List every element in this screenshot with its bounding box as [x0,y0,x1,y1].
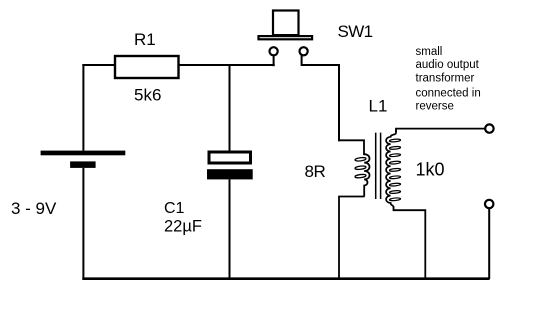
wire: secondary bottom lead down to bottom rail [394,207,426,280]
battery positive plate [41,151,126,156]
resistor R1 [115,56,179,78]
wire: battery positive lead [82,65,84,151]
svg-text:1k0: 1k0 [416,160,445,180]
wire: switch right terminal down, right, and to transformer primary [302,55,339,141]
inductor L1 secondary winding 1k0 (bumps) [386,130,396,211]
wire: bottom terminal to bottom rail [488,208,490,279]
wire: capacitor top branch [229,65,231,152]
wire: secondary top lead to output terminal [396,129,484,132]
capacitor C1 (bottom plate, solid) [207,169,253,179]
wire: top rail from battery to R1 [82,64,115,66]
inductor L1 primary winding 8R (turn rings) [355,157,366,161]
svg-text:8R: 8R [305,162,326,181]
svg-text:connected inreverse: connected inreverse [416,87,481,112]
wire: battery negative lead [82,168,84,279]
pushbutton SW1 left terminal [270,47,278,55]
svg-text:SW1: SW1 [338,22,373,41]
output terminal top [485,124,493,132]
battery negative plate [70,161,96,168]
wire: primary bottom lead to bottom rail [339,197,365,280]
svg-text:3 - 9V: 3 - 9V [11,199,57,218]
transformer core line 2 [380,133,382,199]
inductor L1 secondary winding 1k0 (turn rings) [389,139,400,142]
transformer core line 1 [375,133,377,199]
wire: capacitor to bottom rail [229,179,231,279]
svg-text:smallaudio outputtransformer: smallaudio outputtransformer [416,46,480,84]
inductor L1 primary winding 8R (bumps) [364,154,369,196]
svg-text:L1: L1 [369,97,388,116]
svg-text:C1: C1 [164,200,185,217]
pushbutton SW1 base bar [259,36,313,39]
pushbutton SW1 right terminal [300,47,308,55]
wire: switch left terminal to top rail [273,55,275,66]
pushbutton SW1 plunger [273,11,299,36]
svg-text:R1: R1 [134,30,156,49]
wire: primary top lead [338,140,364,155]
wire: top rail from R1 to switch branch [179,64,275,66]
svg-text:5k6: 5k6 [134,86,161,105]
wire: bottom rail [82,277,489,280]
svg-text:22µF: 22µF [164,218,202,236]
capacitor C1 (electrolytic, top plate) [209,152,251,163]
output terminal bottom [485,200,493,208]
